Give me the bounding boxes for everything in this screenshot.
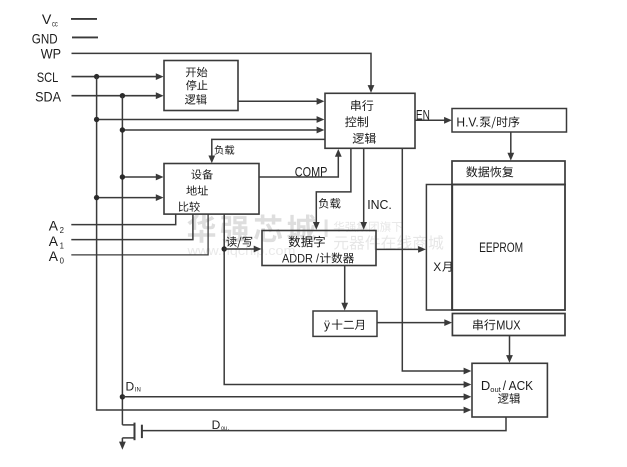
junction read/write [222,246,227,251]
svg-text:A: A [49,234,59,249]
box U7 X decoder [426,185,452,311]
junction SDA-compare [120,174,125,179]
wire Dout/ACK output to transistor gate [142,417,506,431]
svg-text:ÿ: ÿ [324,318,330,332]
junction SDA [120,93,125,98]
box U10 Y decoder [313,311,377,336]
wire SDA rail down to output transistor [121,96,123,425]
box U2 serial control logic [325,93,415,148]
box U3 HV pump / timing [452,109,567,133]
watermark: slogan line 2 [334,235,443,250]
wire SDA to device address compare [122,176,158,178]
wire counter to X decoder [376,248,421,250]
wire SDA to start-stop logic [72,95,159,97]
box U8 serial mux [452,314,565,336]
wire SCL bus to serial control [97,119,320,121]
wire load2 to data word counter [316,149,351,226]
wire SDA bus to serial control [122,129,320,131]
junction SCL bus [94,117,99,122]
svg-text:MUX: MUX [496,317,521,332]
wire HV pump to data recovery [510,132,512,156]
svg-text:V: V [42,12,52,28]
label load2 [319,198,341,209]
box U9 data word ADDR counter [262,231,376,266]
wire load signal to device address compare [212,139,325,159]
pin stub GND [72,36,98,38]
junction SDA bus [120,127,125,132]
svg-text:EEPROM: EEPROM [479,240,523,255]
wire counter to Y decoder [344,266,346,307]
wire serial mux to Dout/ACK logic [509,336,511,359]
wire Y decoder to serial mux [377,322,448,324]
box U6 EEPROM array [452,185,565,311]
svg-text:D: D [126,379,135,393]
svg-text:/ ACK: / ACK [503,378,534,393]
wire read/write into data word counter [224,248,257,250]
wire WP to serial-control top [72,53,372,88]
box U1 start-stop logic [164,61,238,111]
svg-text:A: A [49,249,59,264]
wire A2 to device address compare [71,214,175,224]
svg-text:WP: WP [41,46,61,62]
wire INC to data word counter [363,149,365,226]
svg-text:INC.: INC. [367,198,392,212]
label read/write [226,236,252,248]
svg-text:GND: GND [32,31,58,47]
svg-text:A: A [49,219,59,234]
svg-text:SCL: SCL [37,69,59,85]
watermark: divider bar [325,220,328,238]
watermark: slogan line 1 [334,221,403,232]
svg-text:SDA: SDA [35,88,61,104]
svg-text:1: 1 [60,242,64,251]
wire COMP to serial control [259,153,338,177]
wire SCL to device address compare [97,197,159,199]
svg-text:ou: ou [221,425,227,432]
svg-text:IN: IN [135,386,141,393]
box U11 Dout/ACK logic [472,363,547,417]
box U4 device address compare [164,164,259,215]
wire Din to Dout/ACK logic [122,396,467,398]
svg-text:cc: cc [52,19,58,28]
pin stub VCC [71,18,97,20]
label load1 [215,145,235,155]
svg-text:H.V.: H.V. [456,114,478,129]
transistor Q1 output driver (open drain) [122,424,134,426]
svg-text:D: D [212,418,221,432]
svg-text:out: out [490,387,501,394]
svg-text:0: 0 [60,256,65,265]
svg-text:D: D [481,378,490,393]
wire SCL to start-stop logic [72,76,159,78]
junction Din [120,394,125,399]
wire A1 to device address compare [71,214,193,239]
svg-text:2: 2 [60,226,64,235]
svg-text:www.hqchip.com: www.hqchip.com [186,243,295,258]
wire A0 to device address compare [71,214,208,255]
svg-text:ADDR /: ADDR / [282,251,320,265]
wire SCL rail down to Dout/ACK logic [97,77,467,410]
wire read/write from compare to counter and Dout/ACK [224,214,467,384]
wire serial control to Dout/ACK logic [402,149,467,371]
junction SCL-compare [94,195,99,200]
watermark: big gray logo text [187,214,316,243]
junction SCL [94,74,99,79]
svg-text:X: X [433,260,441,274]
box U5 data recovery [452,161,565,185]
svg-text:.: . [228,425,230,432]
wire EN to HV pump [415,119,447,121]
wire start-stop to serial control [238,100,320,102]
